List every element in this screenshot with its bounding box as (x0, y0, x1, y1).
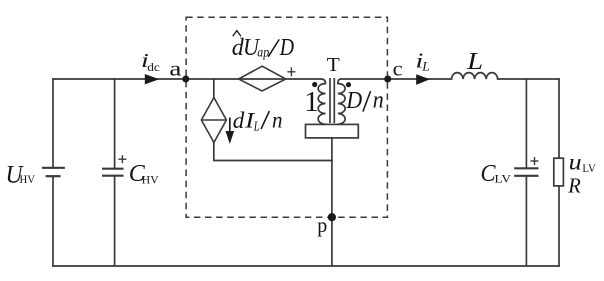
wire secondary to inductor (341, 78, 452, 80)
capacitor C_HV (102, 169, 124, 176)
node a (182, 76, 189, 83)
svg-text:a: a (169, 56, 182, 80)
wire left edge lower (52, 176, 54, 266)
label U_HV (6, 161, 36, 188)
voltage source U_HV battery (42, 168, 65, 176)
plus sign C_HV (118, 155, 126, 163)
svg-text:HV: HV (20, 174, 36, 186)
svg-text:c: c (393, 59, 403, 81)
inductor L (452, 73, 498, 79)
wire C_HV branch upper (114, 79, 116, 169)
wire right edge upper (558, 79, 560, 158)
wire current-source branch bottom L (214, 143, 332, 161)
plus sign C_LV (531, 157, 539, 165)
svg-text:n: n (272, 107, 283, 133)
wire C_LV branch upper (525, 79, 527, 168)
label i_L (415, 48, 429, 73)
label dI_L/n (233, 107, 283, 133)
plus sign of dependent source (287, 67, 295, 76)
label C_LV (481, 161, 512, 187)
dependent voltage source dU_ap/D (239, 66, 286, 91)
wire bottom (53, 265, 559, 267)
svg-text:R: R (567, 174, 581, 198)
svg-text:n: n (373, 88, 384, 114)
svg-text:T: T (327, 54, 340, 76)
transformer polarity dot secondary (346, 82, 351, 87)
svg-text:dc: dc (147, 60, 160, 74)
svg-text:LV: LV (495, 173, 512, 185)
label C_HV (129, 161, 159, 187)
arrow of current source (226, 118, 235, 145)
svg-text:L: L (421, 59, 430, 74)
dependent current source dI_L/n (201, 98, 226, 143)
svg-text:D: D (279, 35, 294, 61)
bar (306, 124, 359, 137)
svg-text:HV: HV (142, 174, 159, 186)
svg-text:D: D (346, 87, 363, 114)
current arrow i_L (416, 74, 430, 85)
label i_dc (141, 50, 160, 74)
dashed box (186, 17, 387, 217)
svg-text:d: d (233, 108, 245, 133)
wire left edge upper (52, 79, 54, 168)
node c (384, 76, 391, 83)
label D/n of transformer (346, 87, 384, 114)
core lines (329, 78, 331, 123)
wire inductor to right corner (498, 78, 559, 80)
wire C_HV branch lower (114, 176, 116, 266)
transformer polarity dot primary (312, 82, 317, 87)
capacitor C_LV (514, 168, 538, 176)
resistor R (554, 158, 564, 186)
wire right edge lower (558, 186, 560, 266)
label dU_ap/D with hat (232, 31, 294, 61)
svg-text:p: p (317, 213, 327, 237)
svg-text:ap: ap (257, 44, 269, 59)
svg-text:1: 1 (304, 86, 319, 118)
svg-text:LV: LV (582, 163, 596, 175)
wire C_LV branch lower (525, 176, 527, 266)
svg-text:L: L (466, 48, 483, 75)
current arrow i_dc (145, 74, 159, 84)
svg-text:u: u (569, 150, 582, 176)
wire current-source branch top (213, 79, 215, 98)
wire transformer center to bottom through p (331, 138, 333, 266)
wire top segment left to transformer (53, 78, 321, 80)
transformer T (306, 78, 359, 138)
svg-text:L: L (253, 119, 260, 134)
secondary winding (338, 79, 345, 124)
node p (328, 213, 336, 221)
primary winding (318, 79, 325, 124)
label u_LV (569, 150, 597, 176)
